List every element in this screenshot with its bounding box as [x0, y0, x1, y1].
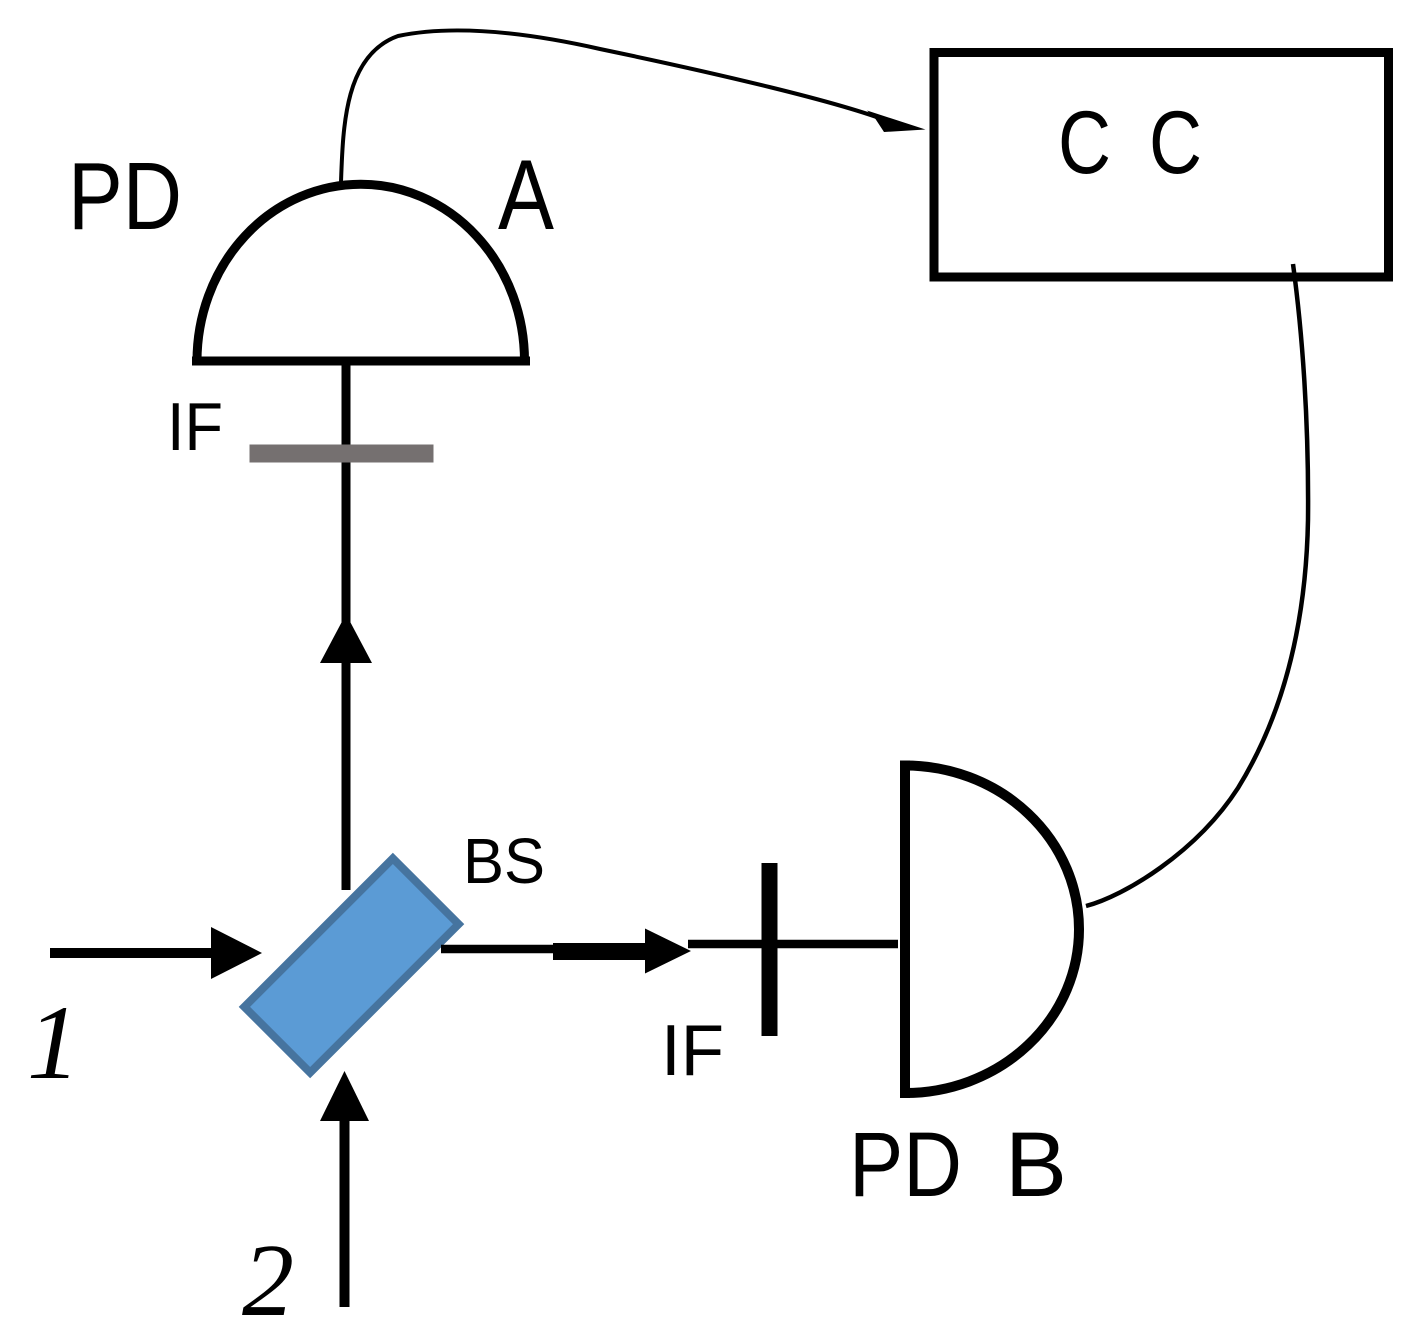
svg-text:BS: BS [463, 825, 545, 897]
photodetector PD B dome [905, 761, 1079, 1099]
wire PD A to coincidence counter [341, 30, 890, 182]
svg-text:PD: PD [849, 1114, 962, 1216]
arrowhead beam 1 [211, 927, 262, 979]
svg-text:C: C [1058, 92, 1111, 192]
svg-text:C: C [1149, 92, 1202, 192]
arrowhead into CC box [867, 111, 926, 133]
interference filter IF (black bar, detector B arm) [762, 863, 778, 1036]
svg-text:A: A [498, 139, 554, 250]
svg-text:PD: PD [68, 143, 182, 250]
arrowhead output beam [645, 929, 691, 974]
wire CC to detector B [1086, 264, 1308, 906]
beam splitter BS (blue rotated rectangle) [244, 858, 458, 1072]
photodetector PD A dome [192, 184, 530, 361]
wire from arrow to detector B [688, 940, 898, 949]
wire segment A (beam from BS up to filter and detector A) [342, 364, 351, 890]
svg-text:IF: IF [661, 1011, 724, 1091]
arrowhead up on beam A [320, 614, 372, 663]
svg-text:B: B [1005, 1114, 1067, 1216]
svg-text:1: 1 [27, 984, 80, 1101]
svg-text:2: 2 [242, 1223, 294, 1338]
output beam thick arrow tail [553, 943, 646, 960]
input beam 2 wire [340, 1115, 350, 1307]
svg-text:IF: IF [167, 389, 223, 465]
input beam 1 wire [50, 948, 215, 958]
output beam to detector B: segment BS to arrow [441, 945, 556, 954]
interference filter IF (gray bar, detector A arm) [250, 445, 434, 463]
coincidence counter box CC [934, 53, 1389, 278]
arrowhead beam 2 [320, 1071, 369, 1121]
